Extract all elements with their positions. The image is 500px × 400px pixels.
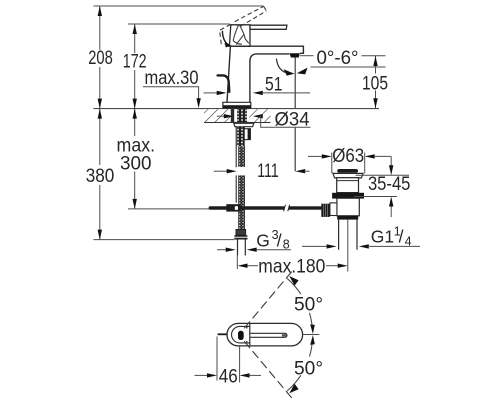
- centre line right: [303, 334, 320, 336]
- dim 111 left arrow: [214, 170, 229, 172]
- svg-text:35-45: 35-45: [368, 174, 411, 195]
- dim 35-45 upper arrow: [390, 156, 392, 166]
- pull rod through deck: [231, 109, 234, 122]
- stream centre line: [294, 58, 296, 172]
- dim 208 upper line and arrow: [99, 6, 101, 50]
- plan view body back edge: [249, 324, 251, 346]
- drain plug cap disc: [337, 169, 358, 173]
- dim max180 line and arrows: [247, 265, 259, 267]
- deck top line: [94, 108, 380, 110]
- lever rotation arc arrow: [222, 31, 228, 45]
- dim 105 line: [375, 56, 377, 108]
- dim G114 left arrow: [302, 245, 329, 247]
- svg-text:51: 51: [265, 75, 283, 96]
- max.30 leader underline: [143, 87, 199, 99]
- dim 208 lower segment and arrow at deck: [99, 67, 101, 109]
- dim 35-45 lower arrow: [390, 207, 392, 218]
- dim 172 upper line and arrow: [134, 24, 136, 53]
- flexible hose upper part: [238, 146, 245, 167]
- dashed swing line upper: [244, 271, 292, 328]
- dashed swing line lower: [244, 341, 292, 398]
- reference line 172: [128, 23, 230, 25]
- svg-text:8: 8: [283, 238, 290, 252]
- svg-text:50°: 50°: [294, 294, 323, 315]
- pop-up pull rod hook: [218, 75, 230, 91]
- svg-text:Ø63: Ø63: [332, 146, 364, 167]
- arc end arrowhead upper: [289, 276, 298, 286]
- dim 380 lower segment: [99, 185, 101, 240]
- svg-text:G: G: [256, 230, 270, 250]
- horizontal pop-up rod: [209, 206, 285, 209]
- dim max300 lower segment: [134, 172, 136, 209]
- cartridge blob: [238, 331, 244, 340]
- dim 34 right arrow and leader to label: [253, 114, 263, 118]
- svg-text:46: 46: [219, 366, 238, 387]
- dashed raised lever: [235, 6, 267, 26]
- swing arc lower segment 2: [287, 375, 301, 391]
- dim O63 left arrow: [308, 155, 324, 157]
- dashed rotated housing outline: [220, 24, 232, 44]
- dim G38 left arrow: [217, 249, 228, 251]
- svg-text:0°-6°: 0°-6°: [317, 48, 359, 69]
- O63 extension ticks: [332, 153, 365, 174]
- plan view body inner outline: [232, 326, 250, 343]
- cartridge housing: [229, 25, 250, 46]
- dim 46 right extension line: [239, 347, 241, 383]
- dim G38 right arrow and line: [247, 248, 257, 252]
- svg-text:380: 380: [86, 166, 115, 187]
- max180 left extension line: [236, 256, 238, 270]
- tailpipe threaded collar: [337, 216, 358, 220]
- corner dots: [246, 327, 248, 329]
- svg-text:111: 111: [257, 161, 279, 182]
- arc centre arrowhead upper: [310, 324, 315, 334]
- stream angle arc: [276, 59, 285, 73]
- svg-text:300: 300: [120, 153, 152, 174]
- threaded shank below deck: [237, 127, 245, 147]
- mounting washer: [234, 123, 254, 126]
- pull rod line left of hose: [235, 127, 237, 203]
- tailpipe centre line: [347, 220, 349, 272]
- wall tick: [218, 333, 227, 335]
- dim 46 left extension line: [216, 337, 218, 381]
- swing arc upper segment 1: [287, 278, 301, 294]
- aerator: [290, 53, 300, 57]
- max.30 down arrow: [196, 98, 200, 108]
- faucet base dark band: [223, 105, 251, 108]
- svg-text:172: 172: [123, 51, 147, 72]
- hose tail pipe: [238, 240, 246, 256]
- knurled knob: [321, 204, 330, 217]
- svg-text:max.30: max.30: [145, 68, 199, 89]
- mounting nut: [244, 129, 250, 140]
- aerator leader line left segment: [300, 55, 314, 57]
- deck bottom line: [204, 121, 271, 123]
- arc centre arrowhead lower: [310, 335, 315, 345]
- hose end nut G38: [234, 235, 247, 239]
- faucet base block: [223, 102, 251, 108]
- svg-text:208: 208: [88, 48, 113, 69]
- dim 34 left arrow: [217, 115, 226, 117]
- aerator leader line right segment: [362, 55, 386, 57]
- hose end fitting: [236, 230, 246, 236]
- 0-6 underline: [311, 66, 386, 68]
- lever slot: [250, 333, 287, 337]
- dim 51 left arrow: [204, 92, 219, 94]
- swing arc lower segment 1: [310, 340, 313, 357]
- 380 bottom reference line: [94, 239, 235, 241]
- top reference line 208: [94, 5, 264, 7]
- 35-45 bottom reference line: [354, 196, 397, 198]
- drain rubber gasket: [332, 193, 364, 199]
- deck hatch left: [204, 109, 233, 122]
- dim G114 right arrow and line: [359, 244, 369, 248]
- tailpipe walls: [339, 220, 357, 250]
- svg-text:Ø34: Ø34: [275, 109, 310, 130]
- svg-text:50°: 50°: [294, 358, 323, 379]
- drain neck: [337, 178, 359, 193]
- slot end tab: [282, 334, 287, 336]
- rod joint connector: [226, 204, 240, 211]
- dim 51 right arrow and line: [253, 91, 263, 95]
- svg-text:G1: G1: [371, 226, 394, 246]
- dim 46 right arrow: [240, 373, 250, 377]
- dim 111 right arrow: [295, 169, 305, 173]
- svg-text:max.180: max.180: [258, 257, 325, 278]
- swing arc upper segment 2: [310, 313, 313, 330]
- drain body: [337, 198, 359, 216]
- 35-45 top reference line: [356, 174, 409, 176]
- svg-text:4: 4: [405, 235, 412, 249]
- lever bar: [250, 25, 287, 29]
- dim 46 left arrow: [195, 374, 210, 376]
- svg-text:105: 105: [362, 74, 388, 95]
- shank through deck: [237, 109, 247, 122]
- dim 380 upper segment below deck: [99, 109, 101, 165]
- rod break marks: [284, 205, 290, 211]
- ball rod port: [330, 203, 337, 216]
- stream angle right arrowhead: [297, 68, 308, 75]
- dim O63 right arrow: [365, 154, 375, 158]
- drain flange: [333, 173, 363, 178]
- dim max300 upper segment below deck: [134, 109, 136, 136]
- arc end arrowhead lower: [289, 384, 298, 394]
- stream angle left arrowhead: [284, 69, 295, 75]
- svg-text:/: /: [277, 230, 282, 250]
- dim 172 lower segment and arrow at deck: [134, 70, 136, 109]
- max300 bottom reference line: [128, 208, 211, 210]
- flexible hose lower part: [238, 175, 245, 229]
- plan view lever outer stadium: [227, 323, 303, 346]
- svg-text:/: /: [399, 226, 404, 246]
- housing inner diagonals: [233, 25, 249, 44]
- faucet body outline: [227, 46, 303, 102]
- deck hatch right: [250, 109, 271, 122]
